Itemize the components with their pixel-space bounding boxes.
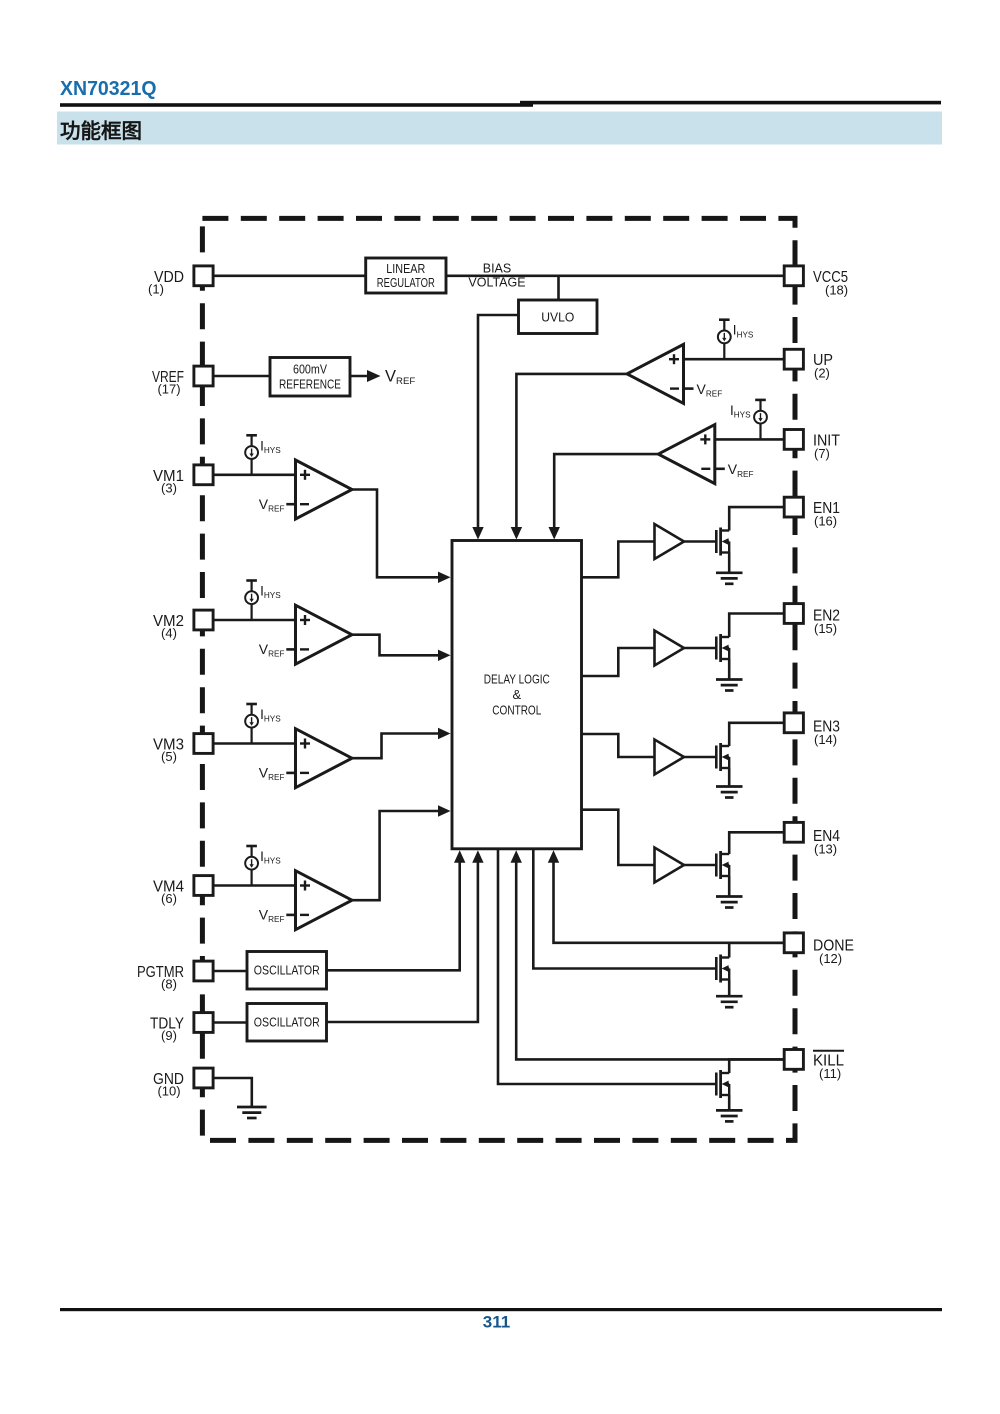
pin KILL (11) bbox=[784, 1050, 844, 1081]
section banner 功能框图 bbox=[57, 112, 942, 145]
svg-text:LINEAR: LINEAR bbox=[386, 262, 425, 276]
svg-text:(4): (4) bbox=[161, 626, 177, 641]
wire EN2 transistor drain to pin bbox=[729, 614, 784, 638]
wire delay logic to EN4 buffer bbox=[582, 810, 655, 865]
wire reference output VREF bbox=[350, 375, 368, 378]
current source IHYS INIT bbox=[730, 400, 767, 440]
svg-text:(18): (18) bbox=[825, 282, 848, 297]
wire EN2 transistor source to ground bbox=[728, 659, 731, 680]
pin INIT (7) bbox=[784, 430, 840, 461]
comparator VM2 bbox=[296, 605, 353, 664]
wire VM3 comparator minus input bbox=[286, 772, 295, 775]
buffer EN4 bbox=[655, 848, 685, 883]
current source IHYS VM4 bbox=[245, 846, 281, 886]
svg-text:BIAS: BIAS bbox=[483, 262, 512, 276]
wire EN4 transistor drain to pin bbox=[729, 832, 784, 854]
wire delay logic to EN1 buffer bbox=[582, 542, 655, 578]
wire bias voltage to VCC5 bbox=[446, 274, 784, 277]
pin VM4 (6) bbox=[153, 876, 213, 906]
wire delay logic to DONE transistor gate bbox=[533, 849, 715, 969]
wire KILL transistor source to ground bbox=[728, 1095, 731, 1110]
svg-text:VREF: VREF bbox=[259, 765, 285, 783]
wire delay logic to KILL transistor gate bbox=[498, 849, 715, 1084]
svg-text:(8): (8) bbox=[161, 977, 177, 992]
wire VM2 comparator minus input bbox=[286, 648, 295, 651]
wire DONE transistor drain to pin bbox=[729, 943, 784, 958]
wire buffer to EN3 transistor gate bbox=[684, 756, 715, 759]
transistor EN2 pulldown bbox=[716, 634, 729, 662]
wire UVLO to delay logic bbox=[478, 315, 519, 529]
svg-text:VREF: VREF bbox=[697, 381, 723, 399]
wire VM1 comparator output to delay logic bbox=[352, 490, 439, 578]
buffer EN1 bbox=[655, 524, 685, 559]
wire VM1 comparator minus input bbox=[286, 503, 295, 506]
svg-text:(1): (1) bbox=[148, 281, 164, 296]
wire VM3 pin to comparator bbox=[213, 742, 296, 745]
transistor DONE pulldown bbox=[716, 955, 729, 983]
transistor KILL pulldown bbox=[716, 1070, 729, 1098]
wire buffer to EN4 transistor gate bbox=[684, 864, 715, 867]
svg-text:OSCILLATOR: OSCILLATOR bbox=[254, 1016, 320, 1030]
svg-text:IHYS: IHYS bbox=[260, 438, 281, 455]
pin VM2 (4) bbox=[153, 610, 213, 640]
block linear regulator bbox=[366, 258, 446, 293]
svg-text:(6): (6) bbox=[161, 891, 177, 906]
svg-text:REFERENCE: REFERENCE bbox=[279, 378, 341, 392]
transistor EN3 pulldown bbox=[716, 743, 729, 771]
wire oscillator PGTMR to delay logic bbox=[327, 860, 460, 970]
svg-text:IHYS: IHYS bbox=[260, 849, 281, 866]
comparator VM1 bbox=[296, 460, 353, 519]
wire KILL net to delay logic input bbox=[516, 861, 784, 1059]
wire UP pin to comparator bbox=[684, 358, 785, 361]
wire VM4 pin to comparator bbox=[213, 884, 296, 887]
svg-text:(17): (17) bbox=[157, 382, 180, 397]
pin EN1 (16) bbox=[784, 497, 840, 528]
wire VM1 pin to comparator bbox=[213, 473, 296, 476]
svg-text:OSCILLATOR: OSCILLATOR bbox=[254, 964, 320, 978]
wire EN1 transistor source to ground bbox=[728, 553, 731, 573]
wire INIT pin to comparator bbox=[715, 438, 785, 441]
wire UP comparator minus input bbox=[684, 387, 694, 390]
wire EN3 transistor drain to pin bbox=[729, 723, 784, 746]
wire INIT comparator minus input bbox=[715, 467, 725, 470]
comparator VM4 bbox=[296, 871, 353, 930]
pin VCC5 (18) bbox=[784, 266, 848, 297]
svg-text:(5): (5) bbox=[161, 749, 177, 764]
dashed device boundary bbox=[202, 218, 795, 1140]
ground GND pin bbox=[237, 1107, 267, 1118]
ground EN4 bbox=[716, 897, 743, 908]
svg-text:&: & bbox=[512, 687, 521, 702]
svg-text:IHYS: IHYS bbox=[260, 707, 281, 724]
wire EN1 transistor drain to pin bbox=[729, 507, 784, 530]
block oscillator TDLY bbox=[247, 1004, 327, 1042]
wire VM2 comparator output to delay logic bbox=[352, 635, 439, 656]
block delay logic and control bbox=[452, 541, 582, 849]
ground EN1 bbox=[716, 573, 743, 584]
svg-text:XN70321Q: XN70321Q bbox=[60, 78, 157, 100]
pin DONE (12) bbox=[784, 933, 854, 966]
wire VM4 comparator minus input bbox=[286, 914, 295, 917]
svg-text:(3): (3) bbox=[161, 480, 177, 495]
svg-text:VREF: VREF bbox=[259, 641, 285, 659]
wire EN4 transistor source to ground bbox=[728, 876, 731, 897]
wire UP comparator output to delay logic bbox=[516, 374, 627, 529]
pin EN3 (14) bbox=[784, 713, 840, 747]
comparator UP bbox=[627, 344, 684, 403]
svg-text:CONTROL: CONTROL bbox=[492, 703, 541, 718]
ground DONE bbox=[716, 996, 743, 1007]
svg-text:(10): (10) bbox=[157, 1084, 180, 1099]
wire PGTMR pin to oscillator bbox=[213, 970, 247, 973]
label BIAS VOLTAGE bbox=[468, 262, 525, 290]
current source IHYS VM2 bbox=[245, 581, 281, 621]
svg-text:(14): (14) bbox=[814, 732, 837, 747]
current source IHYS VM1 bbox=[245, 435, 281, 475]
pin VM1 (3) bbox=[153, 465, 213, 495]
svg-text:DELAY LOGIC: DELAY LOGIC bbox=[484, 672, 550, 687]
wire DONE net to delay logic input bbox=[554, 861, 785, 943]
svg-text:(15): (15) bbox=[814, 621, 837, 636]
ground EN2 bbox=[716, 680, 743, 691]
current source IHYS UP bbox=[718, 320, 754, 360]
svg-text:(2): (2) bbox=[814, 366, 830, 381]
svg-text:IHYS: IHYS bbox=[260, 584, 281, 601]
wire KILL transistor drain to pin bbox=[729, 1059, 784, 1073]
wire EN3 transistor source to ground bbox=[728, 768, 731, 787]
transistor EN4 pulldown bbox=[716, 851, 729, 879]
wire VM2 pin to comparator bbox=[213, 619, 296, 622]
wire delay logic to EN2 buffer bbox=[582, 648, 655, 676]
header rule right segment bbox=[520, 101, 941, 105]
wire VM3 comparator output to delay logic bbox=[352, 734, 439, 759]
svg-text:(12): (12) bbox=[819, 951, 842, 966]
wire DONE transistor source to ground bbox=[728, 980, 731, 997]
pin UP (2) bbox=[784, 349, 833, 380]
pin TDLY (9) bbox=[150, 1013, 213, 1043]
svg-text:REGULATOR: REGULATOR bbox=[377, 276, 435, 290]
wire VM4 comparator output to delay logic bbox=[352, 811, 439, 900]
ground KILL bbox=[716, 1110, 743, 1121]
wire bias to UVLO bbox=[557, 276, 560, 300]
svg-text:(16): (16) bbox=[814, 514, 837, 529]
pin VDD (1) bbox=[148, 266, 213, 296]
svg-text:VREF: VREF bbox=[385, 368, 415, 388]
pin VREF (17) bbox=[152, 366, 213, 396]
svg-text:(11): (11) bbox=[819, 1066, 841, 1081]
block UVLO bbox=[519, 300, 598, 334]
buffer EN2 bbox=[655, 631, 685, 666]
ground EN3 bbox=[716, 787, 743, 798]
pin EN4 (13) bbox=[784, 822, 840, 856]
block oscillator PGTMR bbox=[247, 952, 327, 990]
pin PGTMR (8) bbox=[137, 961, 213, 991]
buffer EN3 bbox=[655, 740, 685, 775]
svg-text:VREF: VREF bbox=[259, 496, 285, 514]
svg-text:UVLO: UVLO bbox=[541, 309, 574, 324]
wire VDD to linear regulator bbox=[213, 274, 366, 277]
svg-text:IHYS: IHYS bbox=[733, 323, 754, 340]
svg-text:IHYS: IHYS bbox=[730, 403, 751, 420]
wire buffer to EN2 transistor gate bbox=[684, 647, 715, 650]
svg-text:功能框图: 功能框图 bbox=[60, 119, 142, 143]
pin GND (10) bbox=[153, 1068, 213, 1098]
svg-text:311: 311 bbox=[483, 1313, 510, 1332]
header rule left segment bbox=[60, 103, 533, 107]
svg-text:600mV: 600mV bbox=[293, 363, 328, 377]
wire GND pin to ground bbox=[213, 1078, 252, 1107]
footer rule bbox=[60, 1308, 942, 1311]
wire delay logic to EN3 buffer bbox=[582, 734, 655, 757]
svg-text:VREF: VREF bbox=[728, 461, 754, 479]
wire oscillator TDLY to delay logic bbox=[327, 860, 478, 1022]
comparator VM3 bbox=[296, 729, 353, 788]
wire VREF pin to reference bbox=[213, 375, 270, 378]
block 600mV reference bbox=[270, 358, 350, 397]
svg-text:(13): (13) bbox=[814, 841, 837, 856]
wire buffer to EN1 transistor gate bbox=[684, 540, 715, 543]
current source IHYS VM3 bbox=[245, 704, 281, 744]
svg-text:VREF: VREF bbox=[259, 907, 285, 925]
wire TDLY pin to oscillator bbox=[213, 1021, 247, 1024]
transistor EN1 pulldown bbox=[716, 528, 729, 556]
wire INIT comparator output to delay logic bbox=[554, 454, 658, 529]
pin VM3 (5) bbox=[153, 734, 213, 764]
pin EN2 (15) bbox=[784, 604, 840, 636]
svg-text:(9): (9) bbox=[161, 1028, 177, 1043]
comparator INIT bbox=[658, 425, 715, 484]
svg-text:(7): (7) bbox=[814, 446, 830, 461]
svg-text:VOLTAGE: VOLTAGE bbox=[468, 276, 525, 290]
